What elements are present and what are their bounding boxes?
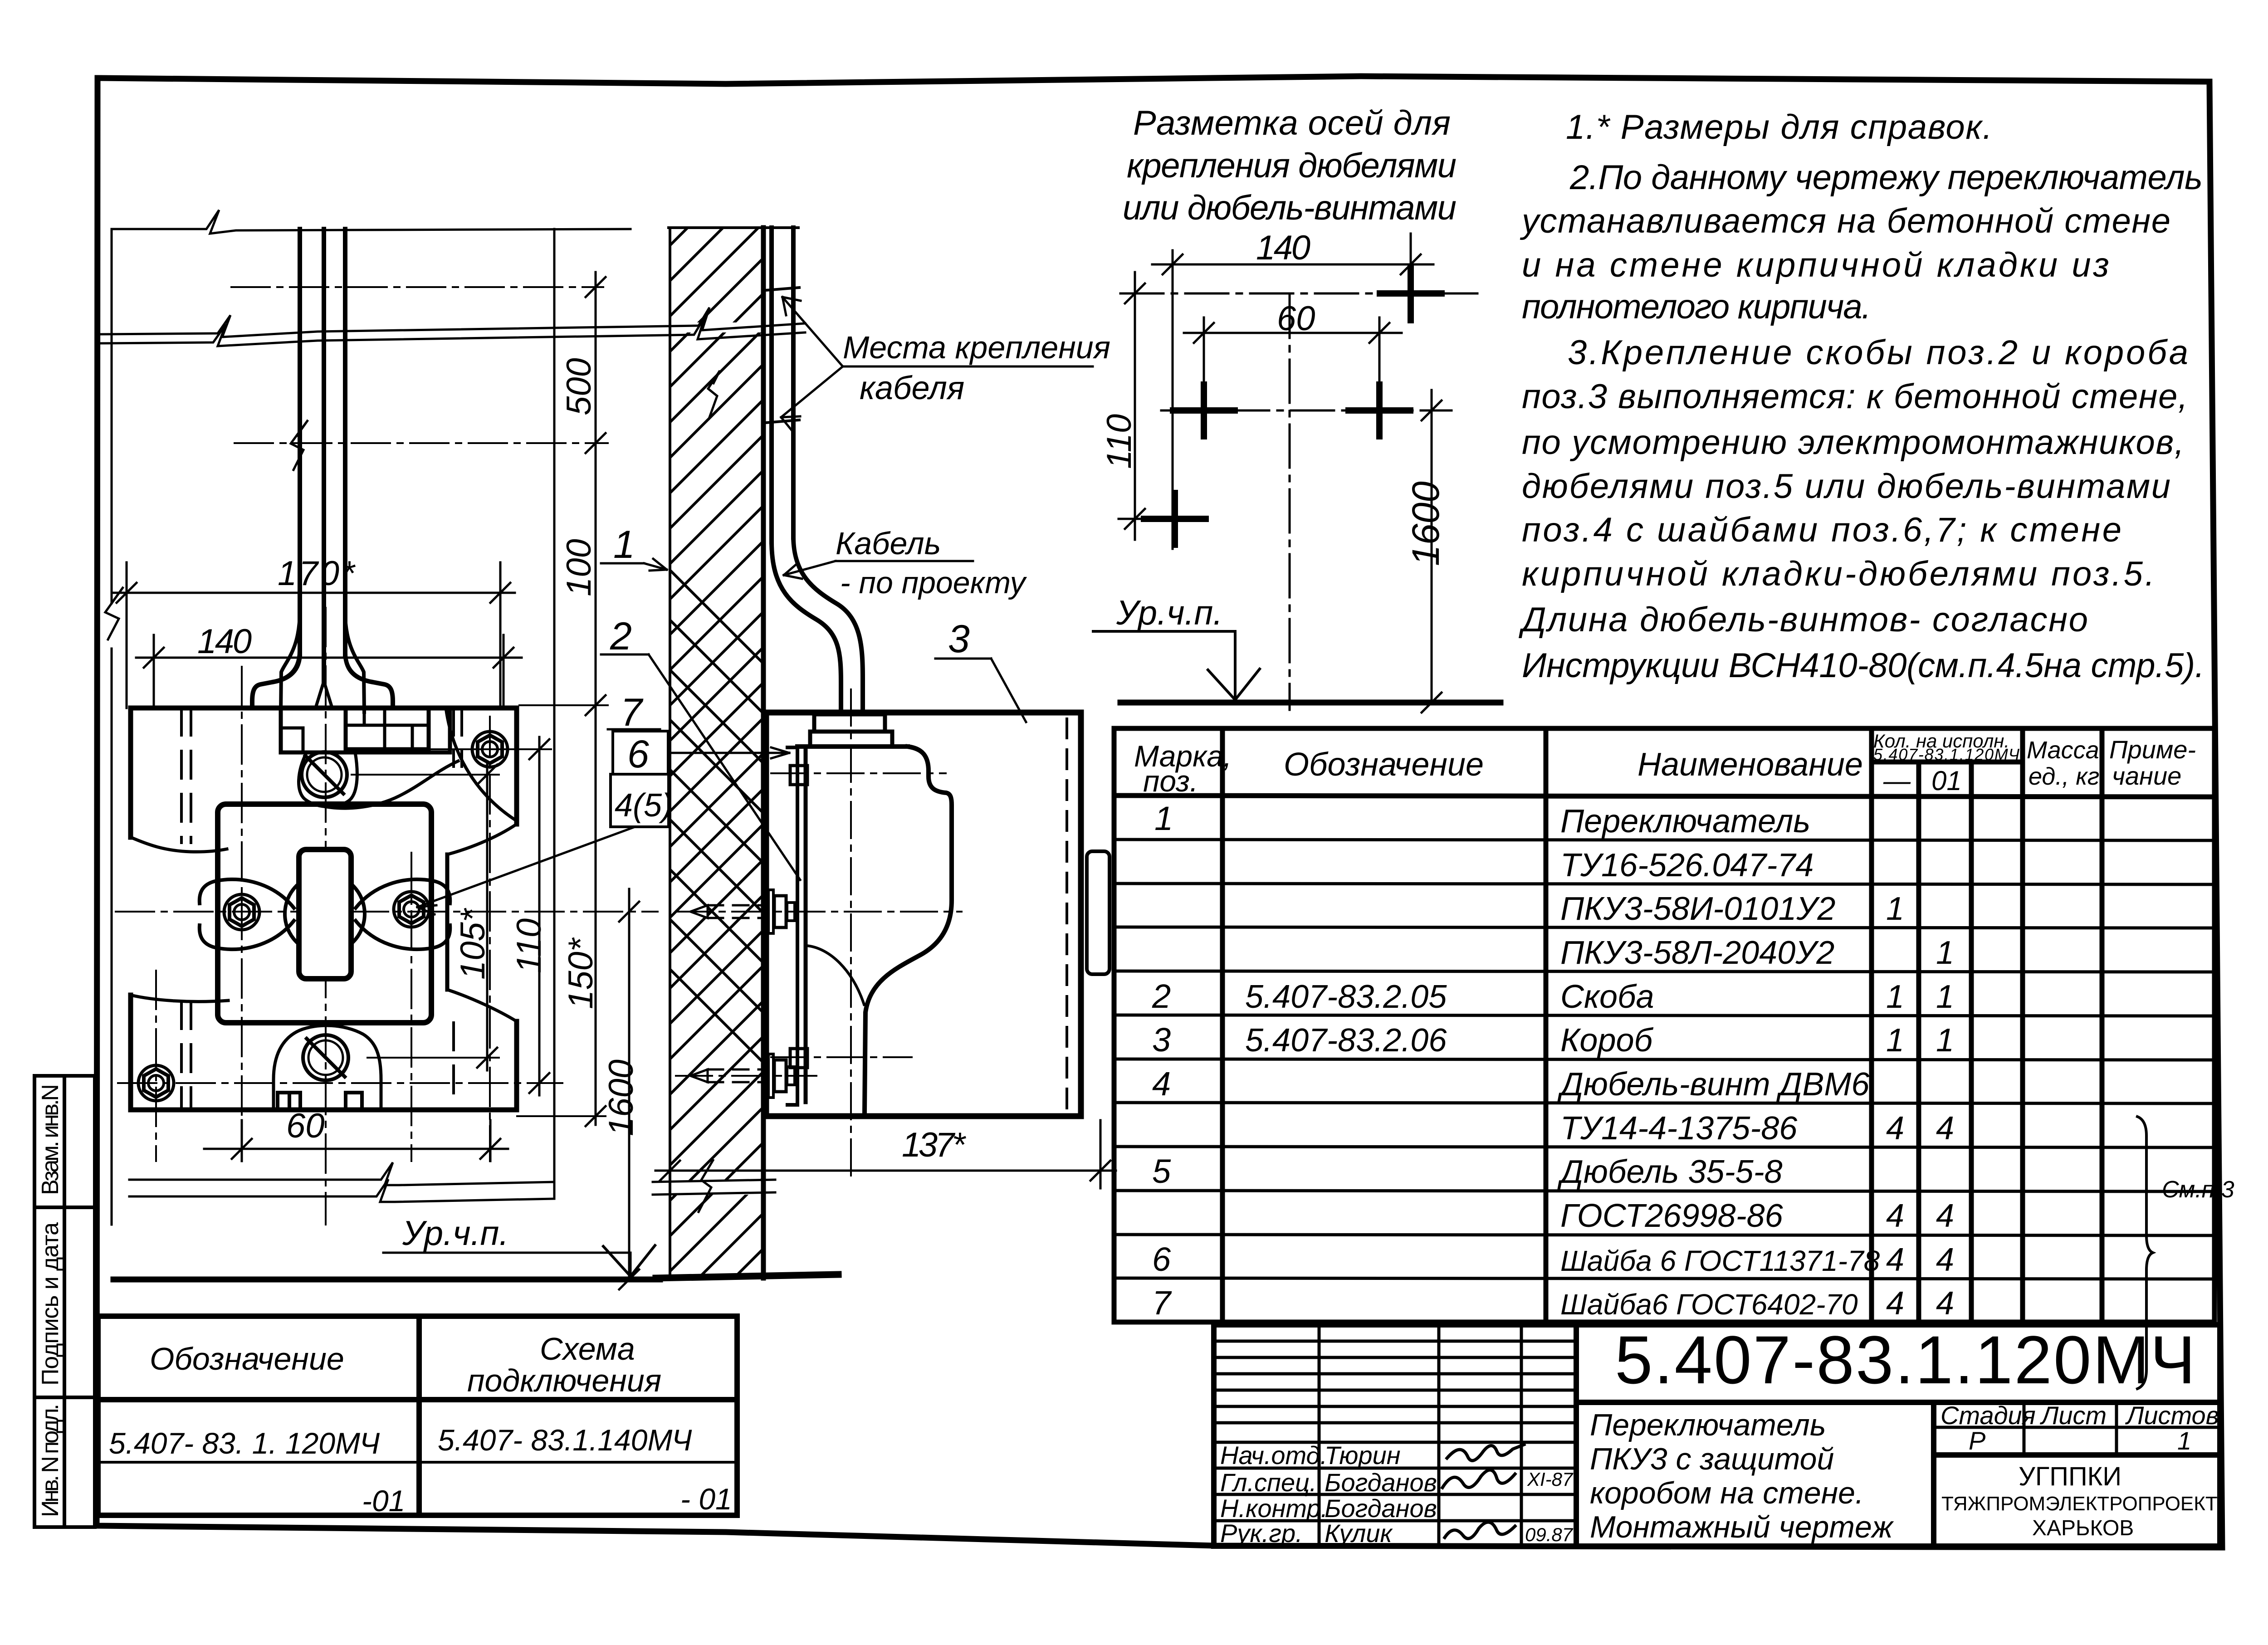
svg-text:ГОСТ26998-86: ГОСТ26998-86 [1560, 1198, 1784, 1234]
svg-text:3: 3 [948, 617, 970, 661]
svg-text:Схема: Схема [540, 1331, 635, 1367]
170* [126, 562, 128, 708]
svg-text:Инструкции ВСН410-80(см.п.4.5: Инструкции ВСН410-80(см.п.4.5на стр.5). [1522, 646, 2204, 685]
svg-text:137*: 137* [902, 1126, 966, 1164]
svg-text:Тюрин: Тюрин [1325, 1441, 1401, 1469]
140 [153, 635, 155, 708]
svg-text:1.* Размеры для справок.: 1.* Размеры для справок. [1566, 108, 1992, 146]
gland stack under box top [810, 714, 892, 747]
svg-text:Богданов: Богданов [1325, 1494, 1437, 1523]
svg-text:1600: 1600 [602, 1059, 640, 1136]
svg-text:Рук.гр.: Рук.гр. [1220, 1519, 1303, 1547]
svg-text:Дюбель 35-5-8: Дюбель 35-5-8 [1557, 1154, 1783, 1190]
svg-text:Обозначение: Обозначение [150, 1341, 344, 1377]
svg-text:—: — [1883, 766, 1911, 796]
svg-text:5.407-83.2.06: 5.407-83.2.06 [1245, 1022, 1447, 1059]
svg-text:Наименование: Наименование [1637, 747, 1863, 783]
svg-text:110: 110 [1100, 414, 1139, 469]
svg-text:ПКУ3 с защитой: ПКУ3 с защитой [1590, 1442, 1834, 1476]
hex bolt mid-left [224, 894, 259, 930]
pos 3 leader [935, 658, 991, 660]
svg-text:140: 140 [197, 622, 252, 661]
svg-text:Монтажный чертеж: Монтажный чертеж [1590, 1510, 1894, 1544]
svg-text:5.407- 83.1.140МЧ: 5.407- 83.1.140МЧ [438, 1423, 692, 1457]
svg-text:ПКУ3-58И-0101У2: ПКУ3-58И-0101У2 [1560, 891, 1835, 927]
svg-text:1: 1 [1886, 891, 1904, 927]
svg-text:Приме-: Приме- [2109, 735, 2196, 764]
svg-text:1: 1 [1886, 1022, 1904, 1059]
105* line [486, 762, 489, 1070]
vertical chain 500/100/150* [595, 272, 597, 1125]
svg-text:Длина дюбель-винтов- согласно: Длина дюбель-винтов- согласно [1518, 600, 2088, 639]
svg-text:1: 1 [613, 523, 635, 566]
svg-text:или дюбель-винтами: или дюбель-винтами [1123, 189, 1457, 227]
svg-text:7: 7 [1152, 1284, 1172, 1322]
svg-text:ТУ14-4-1375-86: ТУ14-4-1375-86 [1560, 1110, 1798, 1147]
svg-text:См.п.3: См.п.3 [2162, 1176, 2234, 1203]
svg-text:3: 3 [1152, 1021, 1171, 1059]
svg-text:1: 1 [1886, 979, 1904, 1015]
svg-text:5.407-83.1.120МЧ: 5.407-83.1.120МЧ [1615, 1322, 2195, 1398]
box (korob) [766, 713, 1110, 1116]
svg-text:Шайба6 ГОСТ6402-70: Шайба6 ГОСТ6402-70 [1560, 1288, 1858, 1321]
cable clamp marks [766, 288, 799, 423]
svg-text:1: 1 [1936, 979, 1954, 1015]
svg-text:и на стене кирпичной кладки: и на стене кирпичной кладки из [1522, 246, 2109, 284]
svg-text:2: 2 [1152, 977, 1171, 1015]
ticks 45deg [1125, 254, 1442, 713]
svg-text:Взам. инв.N: Взам. инв.N [37, 1084, 64, 1195]
top edge / plate [131, 706, 517, 711]
svg-text:4: 4 [1152, 1065, 1171, 1103]
svg-text:УГППКИ: УГППКИ [2019, 1462, 2121, 1491]
dowel crosses [1144, 268, 1442, 545]
construction/extension lines [105, 210, 631, 1225]
svg-text:7: 7 [621, 691, 644, 734]
gland block under plate [281, 708, 450, 752]
svg-text:дюбелями поз.5 или дюбель-в: дюбелями поз.5 или дюбель-винтами [1522, 467, 2170, 506]
long right extension [553, 229, 556, 1196]
cable in section [772, 228, 863, 714]
thin extensions [352, 705, 608, 1116]
svg-text:105*: 105* [454, 908, 492, 980]
screw blob wavy [299, 752, 357, 807]
switch outline [131, 708, 517, 1110]
svg-text:4: 4 [1936, 1110, 1954, 1147]
svg-text:Шайба 6 ГОСТ11371-78: Шайба 6 ГОСТ11371-78 [1560, 1245, 1880, 1277]
svg-text:150*: 150* [562, 937, 600, 1009]
svg-text:Гл.спец.: Гл.спец. [1220, 1468, 1317, 1497]
svg-text:кабеля: кабеля [860, 370, 964, 406]
svg-text:170*: 170* [278, 554, 356, 593]
svg-text:4: 4 [1936, 1198, 1954, 1234]
svg-text:Кулик: Кулик [1325, 1519, 1393, 1547]
svg-text:140: 140 [1256, 229, 1310, 267]
bottom edge [131, 1108, 517, 1113]
terminal block [346, 708, 429, 749]
svg-text:500: 500 [560, 358, 598, 415]
svg-text:Разметка осей для: Разметка осей для [1133, 104, 1451, 142]
top-right corner piece [514, 708, 519, 824]
butterfly clips [200, 879, 294, 908]
svg-text:- по проекту: - по проекту [840, 566, 1027, 600]
svg-text:Лист: Лист [2040, 1401, 2107, 1430]
svg-text:1: 1 [1936, 1022, 1954, 1059]
svg-text:Переключатель: Переключатель [1560, 803, 1810, 840]
svg-text:Ур.ч.п.: Ур.ч.п. [1116, 594, 1223, 632]
cable break mark [291, 420, 308, 470]
svg-text:ХАРЬКОВ: ХАРЬКОВ [2032, 1516, 2134, 1540]
bracket (skoba) side [787, 747, 807, 1105]
dim lines [1152, 264, 1433, 266]
circle behind handle [285, 874, 365, 954]
1600 line [628, 889, 631, 1279]
central square [218, 804, 431, 1023]
extension verticals [1172, 250, 1174, 549]
svg-text:- 01: - 01 [680, 1482, 732, 1516]
svg-text:4: 4 [1886, 1285, 1904, 1322]
svg-text:4: 4 [1936, 1242, 1954, 1278]
svg-text:2: 2 [610, 615, 632, 658]
svg-text:Масса: Масса [2027, 737, 2099, 764]
dashed inner verticals [181, 708, 462, 1110]
cable lines [252, 229, 393, 712]
svg-text:4: 4 [1936, 1285, 1954, 1322]
svg-text:5.407-83.2.05: 5.407-83.2.05 [1245, 979, 1447, 1015]
hex bolt top-right [138, 732, 508, 1101]
axis dash-dot lines [116, 287, 658, 1225]
svg-text:Богданов: Богданов [1325, 1468, 1437, 1497]
svg-text:ПКУ3-58Л-2040У2: ПКУ3-58Л-2040У2 [1560, 935, 1834, 971]
svg-text:1600: 1600 [1404, 481, 1447, 566]
svg-text:4: 4 [1886, 1242, 1904, 1278]
svg-text:Подпись и дата: Подпись и дата [37, 1222, 64, 1386]
svg-text:Места крепления: Места крепления [843, 330, 1110, 365]
left vertical extension [111, 229, 113, 1225]
svg-text:60: 60 [286, 1107, 325, 1145]
svg-text:09.87: 09.87 [1525, 1524, 1574, 1545]
svg-text:Обозначение: Обозначение [1284, 747, 1484, 783]
svg-text:6: 6 [627, 732, 649, 776]
svg-text:110: 110 [510, 918, 548, 973]
svg-text:Р: Р [1969, 1426, 1985, 1455]
svg-text:крепления дюбелями: крепления дюбелями [1127, 146, 1457, 185]
svg-text:4: 4 [1886, 1110, 1904, 1147]
hex bolt mid-right [394, 892, 429, 927]
floor line [1120, 700, 1501, 706]
svg-text:кирпичной кладки-дюбелями по: кирпичной кладки-дюбелями поз.5. [1522, 555, 2155, 593]
svg-text:5.407- 83. 1. 120МЧ: 5.407- 83. 1. 120МЧ [109, 1426, 380, 1460]
slab joint double lines across [98, 308, 805, 346]
svg-text:поз.3 выполняется: к бетонно: поз.3 выполняется: к бетонной стене, [1522, 377, 2188, 416]
lower break pair across wall [653, 1160, 775, 1212]
svg-text:Переключатель: Переключатель [1590, 1408, 1826, 1442]
svg-text:60: 60 [1277, 299, 1315, 338]
svg-text:полнотелого кирпича.: полнотелого кирпича. [1522, 288, 1871, 326]
svg-text:Кабель: Кабель [836, 526, 941, 561]
slot screw top-center [302, 752, 348, 1080]
svg-text:поз.4 с шайбами поз.6,7; к: поз.4 с шайбами поз.6,7; к стене [1522, 511, 2121, 549]
svg-text:01: 01 [1931, 766, 1962, 796]
svg-text:ТЯЖПРОМЭЛЕКТРОПРОЕКТ: ТЯЖПРОМЭЛЕКТРОПРОЕКТ [1941, 1493, 2218, 1515]
svg-text:Короб: Короб [1560, 1022, 1654, 1059]
right mid block [447, 824, 517, 854]
dowel bolts through wall [690, 905, 767, 1082]
dimension lines [113, 272, 639, 1289]
floor [656, 1274, 838, 1278]
svg-text:Ур.ч.п.: Ур.ч.п. [402, 1214, 509, 1253]
svg-text:ед., кг: ед., кг [2028, 763, 2099, 790]
svg-text:по усмотрению электромонтажн: по усмотрению электромонтажников, [1522, 423, 2184, 462]
svg-text:1: 1 [2177, 1426, 2191, 1455]
svg-text:чание: чание [2112, 761, 2181, 790]
centerlines [676, 689, 962, 1179]
top line with break [112, 210, 631, 234]
svg-text:3.Крепление скобы поз.2 и ко: 3.Крепление скобы поз.2 и короба [1568, 333, 2188, 372]
floor line [113, 1277, 660, 1283]
svg-text:-01: -01 [362, 1484, 405, 1518]
svg-text:Стадия: Стадия [1941, 1401, 2036, 1430]
svg-text:Листов: Листов [2125, 1401, 2219, 1430]
svg-text:ТУ16-526.047-74: ТУ16-526.047-74 [1560, 847, 1813, 884]
137* dim [655, 1120, 1116, 1188]
svg-text:Н.контр.: Н.контр. [1220, 1494, 1328, 1523]
svg-text:Скоба: Скоба [1560, 979, 1654, 1015]
position labels 1,2,7,6,4(5) [417, 559, 800, 914]
hex bolt bottom-left [138, 1065, 174, 1101]
svg-text:100: 100 [560, 539, 598, 596]
110 line [538, 737, 541, 1095]
svg-text:Инв. N подл.: Инв. N подл. [37, 1404, 64, 1517]
bottom-left ear [131, 995, 228, 1001]
svg-text:4: 4 [1886, 1198, 1904, 1234]
svg-text:XI-87: XI-87 [1527, 1469, 1574, 1490]
svg-text:коробом на стене.: коробом на стене. [1590, 1476, 1864, 1510]
labels with leaders [781, 297, 1093, 722]
signatures (scribbles) [1447, 1445, 1524, 1460]
60 dim [241, 1120, 243, 1161]
svg-text:5.407-83.1.120МЧ: 5.407-83.1.120МЧ [1873, 745, 2020, 764]
wall outline [669, 228, 798, 1279]
bottom-center blob + notch [274, 1025, 381, 1110]
handle [299, 849, 351, 979]
switch body side view [797, 747, 952, 1112]
svg-text:5: 5 [1152, 1152, 1171, 1190]
svg-text:поз.: поз. [1143, 764, 1198, 798]
dim texts [197, 358, 640, 1145]
level mark [1093, 631, 1260, 700]
svg-text:Нач.отд.: Нач.отд. [1220, 1441, 1327, 1469]
svg-text:Дюбель-винт ДВМ6: Дюбель-винт ДВМ6 [1557, 1066, 1870, 1103]
svg-text:устанавливается на бетонной с: устанавливается на бетонной стене [1520, 202, 2170, 240]
svg-text:6: 6 [1152, 1240, 1171, 1278]
svg-text:2.По данному чертежу переключа: 2.По данному чертежу переключатель [1569, 158, 2203, 197]
svg-text:подключения: подключения [467, 1363, 661, 1398]
wall break zigzag [708, 371, 720, 419]
svg-text:4(5): 4(5) [615, 787, 673, 824]
bottom reference lines [129, 1162, 655, 1276]
svg-text:1: 1 [1154, 800, 1173, 837]
svg-text:1: 1 [1936, 935, 1954, 971]
